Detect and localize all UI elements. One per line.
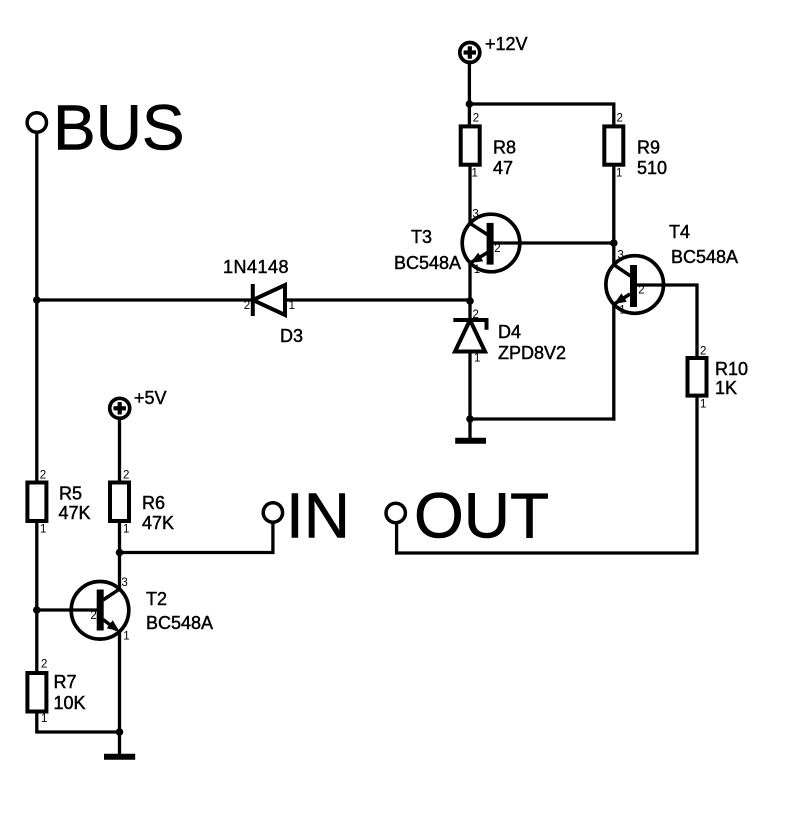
svg-text:R9: R9 — [637, 138, 660, 158]
svg-text:R10: R10 — [715, 359, 748, 379]
svg-text:D3: D3 — [280, 326, 303, 346]
svg-text:1: 1 — [41, 713, 47, 725]
svg-text:10K: 10K — [54, 693, 86, 713]
svg-text:3: 3 — [121, 577, 127, 589]
svg-text:BC548A: BC548A — [394, 253, 461, 273]
svg-text:R5: R5 — [59, 484, 82, 504]
svg-text:T2: T2 — [146, 589, 167, 609]
svg-text:2: 2 — [41, 658, 47, 670]
svg-text:BUS: BUS — [53, 92, 185, 164]
svg-text:1: 1 — [123, 524, 129, 536]
svg-text:1: 1 — [616, 168, 622, 180]
svg-text:T3: T3 — [411, 227, 432, 247]
svg-text:+12V: +12V — [485, 34, 528, 54]
svg-text:2: 2 — [494, 243, 500, 255]
svg-text:1: 1 — [289, 300, 295, 312]
svg-text:2: 2 — [473, 309, 479, 321]
svg-text:1: 1 — [472, 168, 478, 180]
svg-text:1: 1 — [474, 264, 480, 276]
svg-text:R6: R6 — [142, 493, 165, 513]
svg-text:R8: R8 — [493, 138, 516, 158]
svg-text:1: 1 — [474, 353, 480, 365]
svg-text:1N4148: 1N4148 — [223, 257, 289, 277]
svg-text:2: 2 — [473, 113, 479, 125]
svg-text:T4: T4 — [669, 222, 690, 242]
svg-text:47: 47 — [493, 158, 513, 178]
svg-text:47K: 47K — [59, 503, 91, 523]
svg-text:2: 2 — [40, 469, 46, 481]
svg-text:3: 3 — [618, 249, 624, 261]
svg-text:OUT: OUT — [414, 480, 549, 552]
svg-text:1: 1 — [700, 399, 706, 411]
svg-text:R7: R7 — [54, 672, 77, 692]
svg-text:1: 1 — [123, 631, 129, 643]
svg-text:1K: 1K — [715, 378, 737, 398]
svg-text:BC548A: BC548A — [671, 247, 738, 267]
svg-text:+5V: +5V — [134, 388, 167, 408]
svg-text:IN: IN — [286, 480, 350, 552]
svg-text:1: 1 — [40, 524, 46, 536]
svg-text:BC548A: BC548A — [146, 613, 213, 633]
svg-text:3: 3 — [472, 209, 478, 221]
svg-text:47K: 47K — [142, 513, 174, 533]
svg-text:1: 1 — [619, 305, 625, 317]
svg-text:2: 2 — [617, 113, 623, 125]
svg-text:D4: D4 — [498, 322, 521, 342]
svg-text:2: 2 — [638, 284, 644, 296]
svg-text:2: 2 — [700, 346, 706, 358]
svg-text:510: 510 — [637, 158, 667, 178]
svg-text:2: 2 — [123, 469, 129, 481]
svg-text:2: 2 — [90, 610, 96, 622]
svg-text:2: 2 — [244, 300, 250, 312]
svg-text:ZPD8V2: ZPD8V2 — [498, 343, 566, 363]
